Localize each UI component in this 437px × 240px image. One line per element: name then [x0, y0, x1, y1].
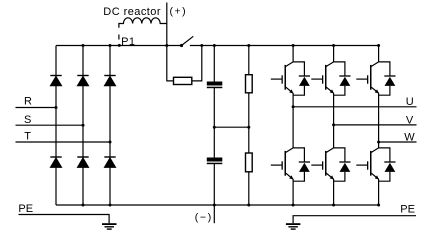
node dot cap top	[213, 44, 216, 47]
capacitor C2 plates	[207, 158, 223, 165]
switch K1 blade	[182, 36, 194, 45]
node dot T leg3	[109, 141, 112, 144]
diode D6 rectifier bottom leg3	[104, 156, 115, 167]
wire output U	[293, 106, 416, 108]
svg-text:U: U	[406, 96, 414, 108]
resistor bypass (soft charge) box	[174, 77, 192, 84]
node dot cap bottom bus	[213, 204, 216, 207]
inductor L1 DC reactor coil	[119, 18, 167, 28]
resistor R2 balance lower box	[246, 153, 253, 172]
node dot R leg1	[55, 106, 58, 109]
node dot midline left	[213, 126, 216, 129]
node dot midline right	[247, 126, 250, 129]
node (-) terminal line	[213, 205, 215, 223]
node dot leg3 bottom bus	[109, 204, 112, 207]
node dot inverter3 top	[377, 44, 380, 47]
resistor R1 balance upper box	[246, 75, 253, 93]
wire bypass right vertical	[192, 46, 202, 81]
ground right PE symbol	[286, 224, 301, 229]
node dot bypass right top	[200, 44, 203, 47]
node dot leg2 bottom bus	[82, 204, 85, 207]
wire top DC bus left segment	[56, 45, 182, 47]
wire PE left line	[19, 215, 110, 224]
node dot plus junction	[165, 44, 168, 47]
node dot P1 bus	[118, 44, 121, 47]
wire midpoint balance line	[214, 126, 249, 128]
node dot inverter1 bottom	[292, 204, 295, 207]
wire inverter leg2 upper vertical	[333, 46, 335, 62]
node dot inverter2 top	[332, 44, 335, 47]
wire inverter leg1 mid vertical	[292, 93, 294, 148]
svg-text:PE: PE	[400, 203, 415, 215]
node dot V	[332, 123, 335, 126]
wire inverter leg3 mid vertical	[378, 93, 380, 148]
wire bypass left vertical	[167, 46, 174, 81]
diode VD4 freewheel	[293, 148, 310, 181]
transistor Q6 IGBT	[356, 148, 379, 180]
wire rectifier leg 2 vertical	[82, 46, 84, 206]
wire capacitor branch lower	[213, 164, 215, 205]
wire top DC bus right segment	[190, 45, 379, 47]
wire inverter leg2 lower vertical	[333, 179, 335, 205]
wire inverter leg2 mid vertical	[333, 93, 335, 148]
node dot switch hinge	[180, 44, 183, 47]
diode D1 rectifier top leg1	[50, 75, 61, 86]
diode D4 rectifier bottom leg1	[50, 156, 61, 167]
node dot inverter3 bottom	[377, 204, 380, 207]
wire rectifier leg 3 vertical	[109, 46, 111, 206]
node dot res top	[247, 44, 250, 47]
transistor Q3 IGBT	[356, 62, 379, 94]
svg-text:S: S	[24, 114, 31, 126]
transistor Q1 IGBT	[271, 62, 294, 94]
wire input line R	[16, 107, 57, 109]
wire capacitor branch upper	[213, 46, 215, 82]
diode VD5 freewheel	[334, 148, 351, 181]
wire inverter leg3 lower vertical	[378, 179, 380, 205]
svg-text:P1: P1	[121, 36, 135, 48]
capacitor C1 plates	[207, 82, 223, 89]
svg-text:DC reactor: DC reactor	[103, 6, 161, 18]
svg-text:T: T	[24, 130, 31, 142]
wire rectifier leg 1 vertical	[55, 46, 57, 206]
diode VD3 freewheel	[379, 62, 396, 95]
node dot U	[292, 105, 295, 108]
node (+) terminal line	[166, 3, 168, 46]
svg-text:PE: PE	[18, 203, 33, 215]
node dot leg3 top bus	[109, 44, 112, 47]
svg-text:W: W	[404, 132, 415, 144]
node dot inverter1 top	[292, 44, 295, 47]
wire input line S	[16, 124, 84, 126]
diode D5 rectifier bottom leg2	[77, 156, 88, 167]
wire PE right line	[293, 216, 416, 224]
wire bottom DC bus	[56, 204, 379, 206]
wire inverter leg1 lower vertical	[292, 179, 294, 205]
svg-text:R: R	[24, 96, 32, 108]
node dot inverter2 bottom	[332, 204, 335, 207]
node dot S leg2	[82, 124, 85, 127]
IGBT leg verticals and phase lines	[293, 46, 416, 206]
transistor Q4 IGBT	[271, 148, 294, 180]
wire resistor branch vertical	[248, 46, 250, 206]
ground left PE symbol	[102, 224, 117, 229]
wire output W	[379, 141, 417, 143]
diode D3 rectifier top leg3	[104, 75, 115, 86]
svg-text:(−): (−)	[195, 212, 213, 224]
node dot res bottom bus	[247, 204, 250, 207]
diode VD1 freewheel	[293, 62, 310, 95]
wire capacitor branch middle	[213, 88, 215, 158]
wire inverter leg1 upper vertical	[292, 46, 294, 62]
transistor Q2 IGBT	[311, 62, 334, 94]
transistor Q5 IGBT	[311, 148, 334, 180]
svg-text:V: V	[406, 115, 414, 127]
diode VD2 freewheel	[334, 62, 351, 95]
node dot leg2 top bus	[82, 44, 85, 47]
wire inverter leg3 upper vertical	[378, 46, 380, 62]
wire output V	[334, 124, 417, 126]
node dot W	[377, 141, 380, 144]
wire dashed jumper P1	[118, 35, 120, 40]
diode D2 rectifier top leg2	[77, 75, 88, 86]
wire input line T	[16, 141, 111, 143]
diode VD6 freewheel	[379, 148, 396, 181]
svg-text:(+): (+)	[170, 5, 188, 17]
